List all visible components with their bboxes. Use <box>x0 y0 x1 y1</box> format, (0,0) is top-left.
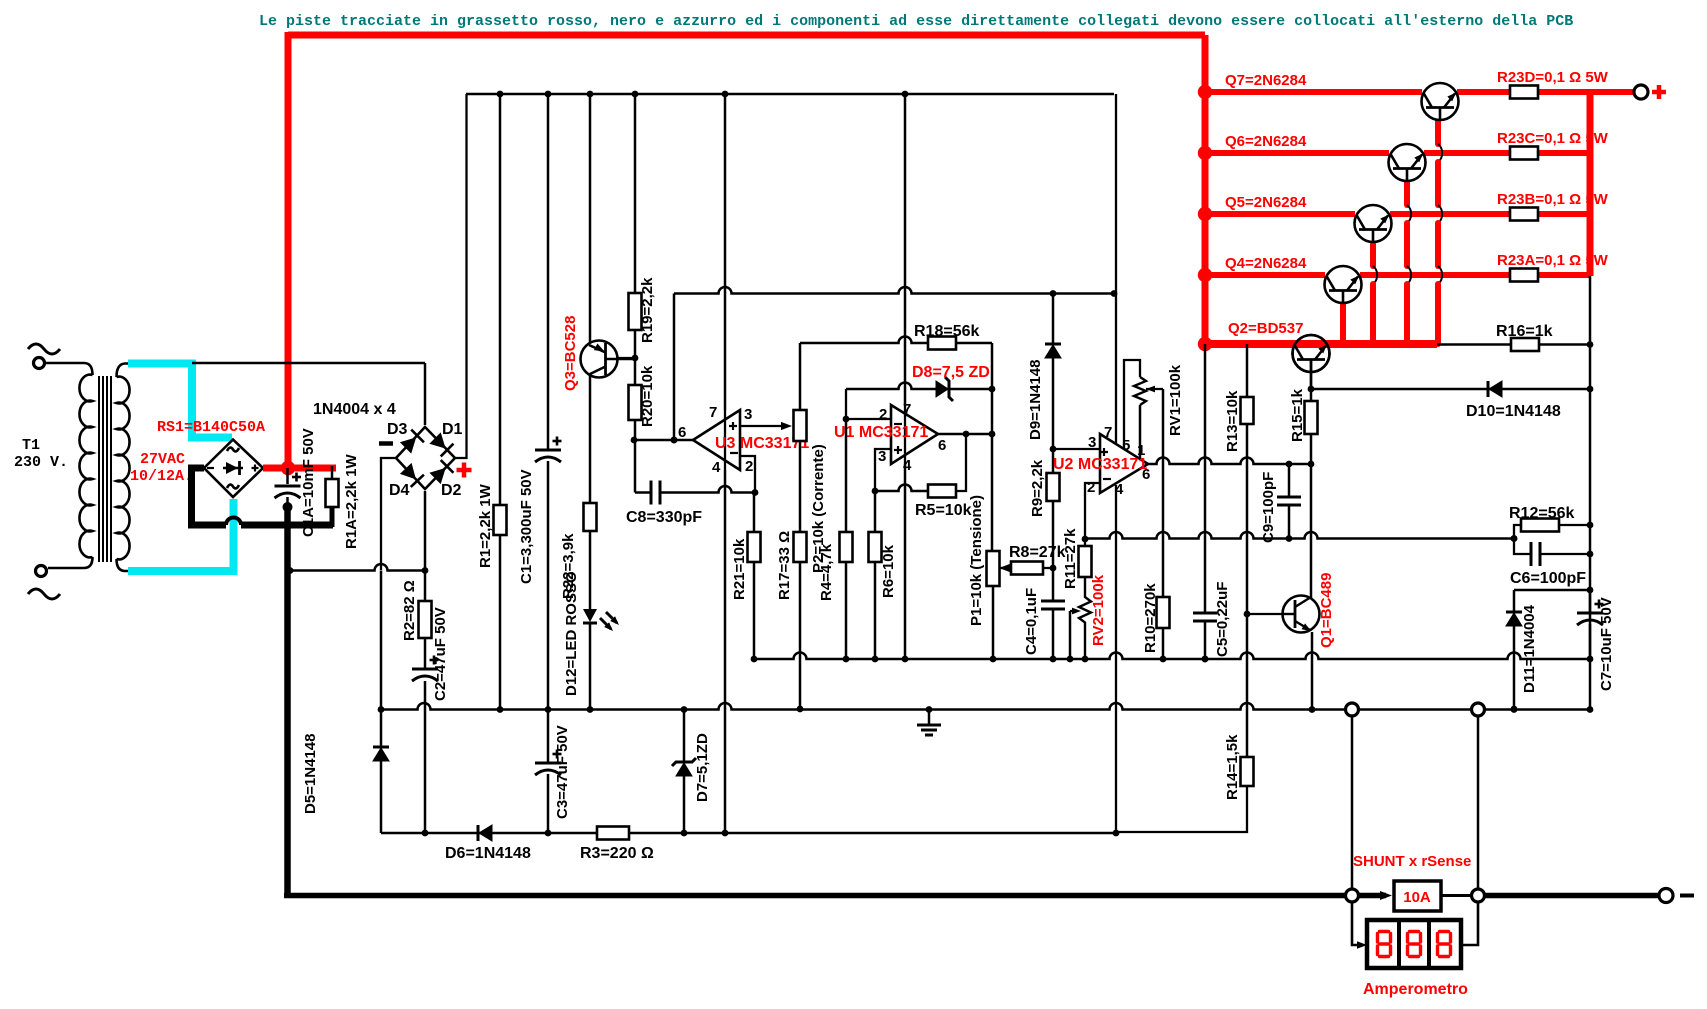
svg-text:R13=10k: R13=10k <box>1224 390 1241 452</box>
wire bridge bottom <box>424 491 427 571</box>
transistor Q1 <box>1310 464 1313 598</box>
wire bus293 U3 output rail <box>674 287 1114 294</box>
capacitor C3 <box>547 709 550 762</box>
wire U3 power vertical <box>724 94 727 410</box>
svg-text:R9=2,2k: R9=2,2k <box>1029 459 1046 517</box>
resistor R9 <box>1052 449 1055 473</box>
resistor R16 <box>1511 338 1539 351</box>
wire minus bus right <box>1485 893 1659 899</box>
transistor Q6 <box>1389 144 1426 181</box>
svg-text:R23B=0,1 Ω 5W: R23B=0,1 Ω 5W <box>1497 191 1609 208</box>
wire red collector drop x1438 <box>1435 119 1441 144</box>
resistor R21 <box>753 493 756 533</box>
capacitor C6 <box>1530 542 1533 566</box>
terminal sense left <box>1351 716 1354 889</box>
capacitor C7 <box>1589 590 1592 612</box>
svg-text:C1=3,300uF 50V: C1=3,300uF 50V <box>518 469 535 584</box>
svg-text:R18=56k: R18=56k <box>914 323 979 340</box>
rectifier RS1 <box>204 440 263 498</box>
resistor R17 <box>794 532 807 562</box>
resistor R1 <box>499 94 502 507</box>
wire thick negative rail <box>284 507 291 896</box>
svg-text:6: 6 <box>678 424 686 441</box>
svg-text:R15=1k: R15=1k <box>1289 388 1306 442</box>
capacitor C8 <box>635 491 651 494</box>
wire red collector drop x1373 <box>1370 242 1376 266</box>
wire thick RS1 minus <box>192 468 227 525</box>
trimmer RV2 <box>1079 577 1091 659</box>
wire RV1 wiper down <box>1162 389 1165 597</box>
wire D10 line <box>1311 388 1590 391</box>
svg-text:R1=2,2k 1W: R1=2,2k 1W <box>477 483 494 568</box>
svg-text:R14=1,5k: R14=1,5k <box>1224 734 1241 800</box>
zener D7 <box>683 709 686 762</box>
svg-text:4: 4 <box>903 457 912 474</box>
svg-text:C8=330pF: C8=330pF <box>626 509 702 526</box>
transistor Q2 body <box>1293 335 1330 372</box>
svg-text:Q4=2N6284: Q4=2N6284 <box>1225 255 1307 272</box>
wire red Q2 collector bus <box>1205 340 1437 348</box>
svg-text:Amperometro: Amperometro <box>1363 981 1468 998</box>
terminal AC top <box>34 358 45 369</box>
resistor R23D <box>1510 86 1538 99</box>
resistor R6 <box>874 491 877 532</box>
capacitor C5 <box>1193 612 1217 615</box>
svg-text:4: 4 <box>1115 481 1124 498</box>
svg-text:2: 2 <box>1087 479 1095 496</box>
capacitor C2 <box>424 638 427 668</box>
wire U3 pin2 stub <box>740 456 755 493</box>
wire U1 pin3 stub <box>875 449 891 491</box>
svg-text:27VAC: 27VAC <box>140 451 185 468</box>
resistor R20 <box>634 358 637 385</box>
svg-text:C1A=10mF 50V: C1A=10mF 50V <box>300 428 317 537</box>
wire V1205 <box>1204 344 1207 613</box>
wire Q3 base <box>618 357 635 359</box>
transistor Q5 <box>1355 205 1392 242</box>
svg-text:D9=1N4148: D9=1N4148 <box>1027 360 1044 440</box>
op-amp U2 <box>1100 434 1148 493</box>
node minus mark <box>379 441 393 446</box>
wire top supply bus y94 <box>466 93 1114 96</box>
svg-text:RV2=100k: RV2=100k <box>1090 574 1107 646</box>
wire R5 line <box>875 485 957 491</box>
svg-text:R20=10k: R20=10k <box>639 365 656 427</box>
svg-text:2: 2 <box>745 458 753 475</box>
svg-text:7: 7 <box>903 401 911 418</box>
resistor R23B <box>1510 208 1538 221</box>
svg-text:R8=27k: R8=27k <box>1009 544 1066 561</box>
svg-text:R21=10k: R21=10k <box>731 538 748 600</box>
wire red RS1 plus stub <box>263 465 336 472</box>
capacitor C1A <box>286 468 289 484</box>
svg-text:C2=47uF 50V: C2=47uF 50V <box>432 607 449 701</box>
wire top-link y363 <box>192 362 425 365</box>
svg-text:Q3=BC528: Q3=BC528 <box>562 316 579 391</box>
svg-text:Le piste tracciate in grassett: Le piste tracciate in grassetto rosso, n… <box>259 13 1573 30</box>
wire rail y538 <box>1085 532 1514 539</box>
trimmer RV1 <box>1124 360 1140 449</box>
svg-text:R3=220 Ω: R3=220 Ω <box>580 845 654 862</box>
svg-text:C9=100pF: C9=100pF <box>1260 472 1277 543</box>
wire U2 pin3 stub <box>1053 448 1100 450</box>
resistor R18 <box>928 337 956 350</box>
resistor R22 <box>584 503 597 531</box>
wire cyan secondary top <box>128 364 232 438</box>
wire R16 line <box>1437 343 1590 346</box>
wire bridge left to D5 column <box>381 458 396 570</box>
wire rail y571 <box>290 564 425 571</box>
resistor R15 <box>1308 386 1315 393</box>
wire red row Q6 <box>1205 150 1389 156</box>
svg-text:3: 3 <box>878 448 886 465</box>
wire red right vertical <box>1202 35 1209 347</box>
svg-text:3: 3 <box>744 406 752 423</box>
wire rail y709 <box>381 703 1590 710</box>
transistor Q3 <box>589 94 592 346</box>
svg-text:R17=33 Ω: R17=33 Ω <box>776 531 793 600</box>
wire U1 pin2 stub <box>846 389 891 419</box>
wire U1 output <box>938 433 992 436</box>
svg-text:R10=270k: R10=270k <box>1142 583 1159 653</box>
terminal sense right <box>1477 716 1480 888</box>
svg-text:R23C=0,1 Ω 5W: R23C=0,1 Ω 5W <box>1497 130 1609 147</box>
svg-text:10A: 10A <box>1403 889 1431 906</box>
resistor R3 <box>597 827 629 840</box>
svg-text:RV1=100k: RV1=100k <box>1167 364 1184 436</box>
wire R13 to Q1 base <box>1244 611 1251 618</box>
svg-text:D2: D2 <box>441 482 462 499</box>
shunt 10A <box>1346 889 1359 902</box>
resistor R13 <box>1246 344 1249 397</box>
resistor R2 <box>424 571 427 601</box>
wire red row Q4 <box>1205 272 1325 278</box>
svg-text:R23D=0,1 Ω 5W: R23D=0,1 Ω 5W <box>1497 69 1609 86</box>
node output plus terminal <box>1634 85 1648 99</box>
wire U2 pin2 stub <box>1085 483 1100 546</box>
svg-text:D11=1N4004: D11=1N4004 <box>1521 604 1538 693</box>
svg-text:D4: D4 <box>389 482 410 499</box>
wire red top bus <box>288 32 1205 39</box>
wire U3 fb to C8 <box>634 440 637 493</box>
transformer T1 <box>44 363 93 375</box>
resistor R23A <box>1510 269 1538 282</box>
op-amp U3 <box>693 410 740 470</box>
wire red output bus <box>1587 92 1594 276</box>
capacitor C4 <box>1052 568 1055 601</box>
svg-text:D10=1N4148: D10=1N4148 <box>1466 403 1561 420</box>
diode D10 <box>1487 381 1490 397</box>
svg-text:U2 MC33171: U2 MC33171 <box>1053 456 1147 473</box>
wire V674 <box>673 294 676 441</box>
svg-text:R6=10k: R6=10k <box>880 544 897 598</box>
capacitor C9 <box>1288 464 1291 497</box>
wire D8 line <box>846 383 992 389</box>
wire red row Q7 <box>1205 89 1422 95</box>
wire Q2 base down <box>1310 360 1313 389</box>
svg-text:T1: T1 <box>22 437 40 454</box>
ground <box>928 709 931 725</box>
op-amp U1 <box>891 405 938 464</box>
svg-text:C4=0,1uF: C4=0,1uF <box>1023 588 1040 655</box>
svg-text:230 V.: 230 V. <box>14 454 68 471</box>
svg-text:D3: D3 <box>387 421 408 438</box>
svg-text:U1 MC33171: U1 MC33171 <box>834 424 928 441</box>
svg-text:R23A=0,1 Ω 5W: R23A=0,1 Ω 5W <box>1497 252 1609 269</box>
wire rail y833 <box>381 832 1116 835</box>
ammeter display <box>1352 902 1360 945</box>
wire V1590 <box>1589 276 1592 709</box>
resistor R12 <box>1514 525 1531 554</box>
diode D11 <box>1513 590 1516 612</box>
wire red collector drop x1343 <box>1340 303 1346 344</box>
wire R5 to output <box>957 434 966 491</box>
wire R18 line <box>800 337 992 343</box>
resistor R8 <box>999 564 1010 572</box>
svg-text:D1: D1 <box>442 421 463 438</box>
transistor Q4 <box>1325 266 1362 303</box>
svg-text:D7=5,1ZD: D7=5,1ZD <box>694 733 711 802</box>
svg-text:R1A=2,2k 1W: R1A=2,2k 1W <box>343 454 360 549</box>
svg-text:Q2=BD537: Q2=BD537 <box>1228 320 1303 337</box>
svg-text:C3=47uF 50V: C3=47uF 50V <box>554 725 571 819</box>
node plus mark red <box>457 468 472 473</box>
potentiometer P1 <box>987 551 1000 586</box>
potentiometer P2 <box>794 410 807 441</box>
diode D6 <box>477 825 480 841</box>
resistor R11 <box>1079 546 1092 577</box>
wire red row Q5 <box>1205 211 1355 217</box>
svg-text:SHUNT x rSense: SHUNT x rSense <box>1353 853 1471 870</box>
svg-text:1N4004 x 4: 1N4004 x 4 <box>313 401 396 418</box>
svg-text:7: 7 <box>709 404 717 421</box>
diode D5 <box>380 571 383 748</box>
wire bridge right to top bus <box>455 94 467 458</box>
resistor R14 <box>1241 757 1254 786</box>
svg-text:C7=10uF 50V: C7=10uF 50V <box>1598 597 1615 691</box>
node red bus junctions <box>1198 85 1212 99</box>
svg-text:Q7=2N6284: Q7=2N6284 <box>1225 72 1307 89</box>
wire cyan secondary bottom <box>128 499 234 571</box>
svg-text:Q6=2N6284: Q6=2N6284 <box>1225 133 1307 150</box>
svg-text:10/12A.: 10/12A. <box>130 468 193 485</box>
svg-text:P1=10k (Tensione): P1=10k (Tensione) <box>968 495 985 626</box>
svg-text:C5=0,22uF: C5=0,22uF <box>1214 582 1231 657</box>
wire red collector drop x1407 <box>1404 181 1410 205</box>
resistor R10 <box>1157 597 1170 628</box>
wire U2 output rail y464 <box>1148 458 1311 464</box>
capacitor C1 <box>547 94 550 449</box>
svg-text:7: 7 <box>1104 424 1112 441</box>
wire V992 <box>991 343 994 551</box>
wire U3 output <box>634 439 693 442</box>
terminal AC bottom <box>36 566 47 577</box>
transistor Q7 <box>1422 83 1459 120</box>
svg-text:D5=1N4148: D5=1N4148 <box>302 734 319 814</box>
wire rail y659 <box>754 653 1590 659</box>
transistor Q2 innards <box>1293 335 1330 372</box>
svg-text:R12=56k: R12=56k <box>1509 505 1574 522</box>
terminal minus <box>1659 889 1673 903</box>
svg-text:Q5=2N6284: Q5=2N6284 <box>1225 194 1307 211</box>
svg-text:D12=LED ROSSO: D12=LED ROSSO <box>563 571 580 696</box>
resistor R4 <box>845 419 848 532</box>
resistor R1A <box>331 466 334 479</box>
svg-text:4: 4 <box>712 459 721 476</box>
svg-text:RS1=B140C50A: RS1=B140C50A <box>157 419 265 436</box>
resistor R23C <box>1510 147 1538 160</box>
zener D8 <box>945 377 953 401</box>
svg-text:6: 6 <box>938 437 946 454</box>
svg-text:2: 2 <box>879 406 887 423</box>
svg-text:R19=2,2k: R19=2,2k <box>639 277 656 343</box>
svg-text:3: 3 <box>1088 434 1096 451</box>
rectifier bridge D1-D4 <box>396 427 455 489</box>
svg-text:R4=4,7k: R4=4,7k <box>818 543 835 601</box>
svg-text:R11=27k: R11=27k <box>1062 528 1079 589</box>
svg-text:R16=1k: R16=1k <box>1496 323 1553 340</box>
svg-text:D8=7,5 ZD: D8=7,5 ZD <box>912 364 990 381</box>
wire C6-C7 link y590 <box>1514 589 1590 592</box>
resistor R5 <box>928 485 956 498</box>
LED D12 <box>583 609 597 622</box>
svg-text:D6=1N4148: D6=1N4148 <box>445 845 531 862</box>
wire U1 power vertical <box>904 94 907 405</box>
diode D9 <box>1052 293 1055 344</box>
svg-text:Q1=BC489: Q1=BC489 <box>1318 573 1335 648</box>
svg-text:R5=10k: R5=10k <box>915 502 972 519</box>
wire U3 pin3 to P2 <box>740 425 786 427</box>
svg-text:C6=100pF: C6=100pF <box>1510 570 1586 587</box>
resistor R19 <box>634 94 637 293</box>
svg-text:R2=82 Ω: R2=82 Ω <box>401 580 418 641</box>
